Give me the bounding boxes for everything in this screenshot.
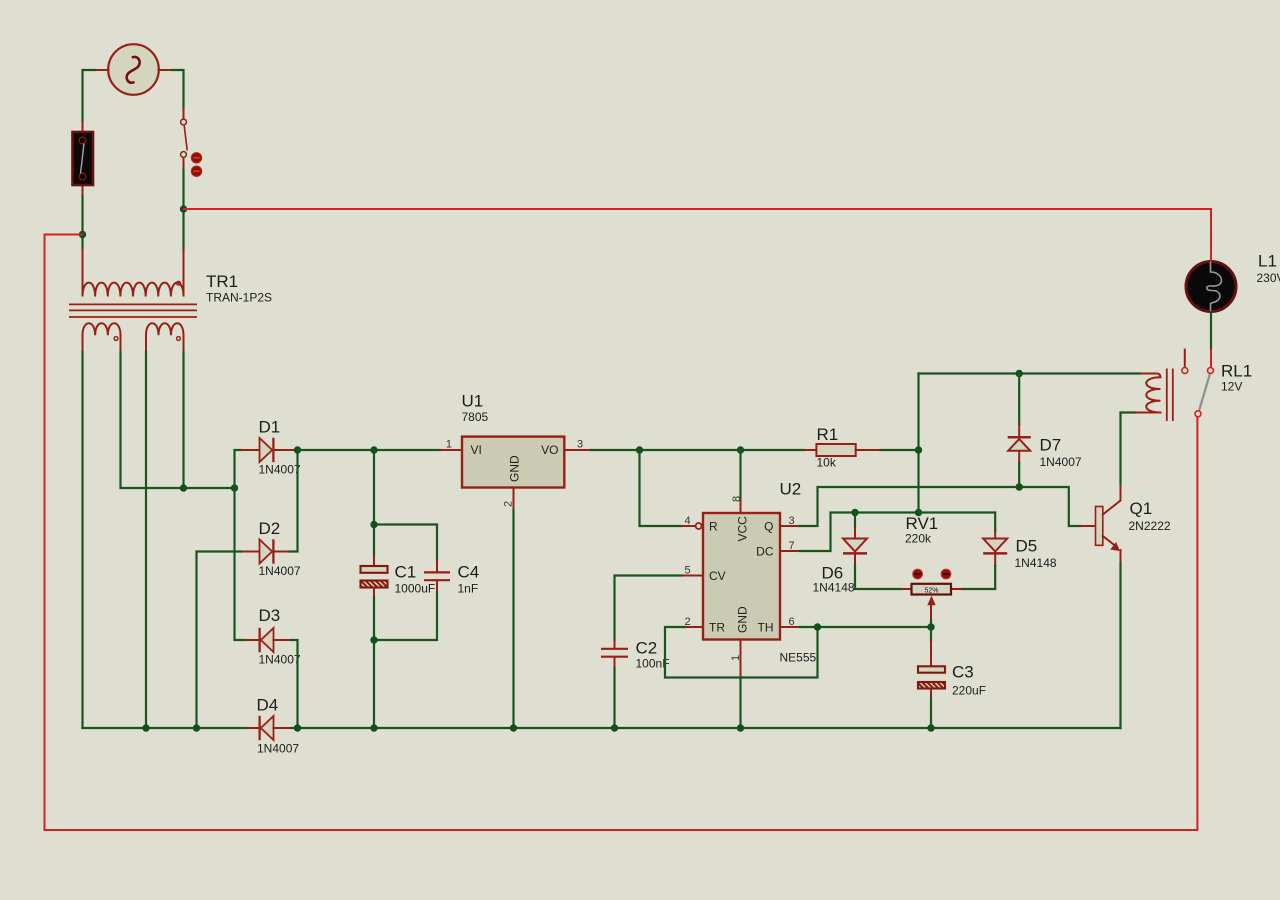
svg-text:D3: D3 — [259, 606, 281, 625]
svg-text:230V: 230V — [1257, 271, 1280, 285]
RV1 toggle dot left — [913, 569, 923, 579]
wire coil rail — [919, 372, 1141, 374]
node +5V right junction — [915, 446, 922, 453]
wire DC to RV1 top rail — [800, 513, 919, 552]
svg-text:RV1: RV1 — [906, 514, 939, 533]
diode D5 — [952, 531, 1008, 589]
transformer TR1 — [69, 249, 197, 352]
pin stub source right — [159, 69, 173, 71]
relay RL1 coil — [1135, 369, 1173, 422]
svg-text:C4: C4 — [458, 563, 480, 582]
wire source-right to switch — [172, 70, 184, 109]
svg-text:C3: C3 — [952, 663, 974, 682]
node rail C2 — [611, 724, 618, 731]
wire collector to coil — [1121, 413, 1136, 485]
wire +5V vertical to coil rail — [917, 374, 919, 513]
wire 555 pin1 to rail — [739, 678, 741, 728]
node junction secondary leads — [180, 484, 187, 491]
wire mains top red — [184, 209, 1211, 261]
svg-text:3: 3 — [789, 515, 795, 527]
svg-text:TRAN-1P2S: TRAN-1P2S — [206, 291, 272, 305]
diode D7 — [1008, 374, 1031, 488]
svg-text:TR: TR — [709, 621, 725, 635]
svg-text:GND: GND — [508, 455, 522, 482]
wire D2 cathode up to +V — [290, 450, 298, 552]
wire C1 bottom to rail — [373, 597, 375, 728]
node C1-C4 bottom junction — [370, 636, 377, 643]
svg-text:1N4148: 1N4148 — [1015, 556, 1057, 570]
svg-text:3: 3 — [577, 439, 583, 451]
svg-text:TH: TH — [758, 621, 774, 635]
svg-text:7: 7 — [789, 540, 795, 552]
wire wiper junction down to C3 — [930, 627, 932, 641]
potentiometer RV1 — [912, 584, 952, 627]
wire lamp bottom green — [1210, 312, 1212, 350]
svg-text:D7: D7 — [1040, 436, 1062, 455]
svg-text:220k: 220k — [905, 532, 932, 546]
node rail D2 anode — [193, 724, 200, 731]
capacitor C4 — [424, 560, 450, 592]
svg-text:D1: D1 — [259, 418, 281, 437]
node junction D1-D2 vertical — [231, 484, 238, 491]
node C1-C4 top junction — [370, 521, 377, 528]
regulator U1 7805 — [440, 437, 591, 510]
wire TH junction to wiper — [800, 626, 932, 628]
RV1 toggle dot right — [941, 569, 951, 579]
svg-text:1000uF: 1000uF — [395, 582, 436, 596]
diode D4 — [246, 716, 291, 740]
svg-text:7805: 7805 — [462, 410, 489, 424]
wire secondary2 right lead — [182, 352, 184, 488]
wire C1 branch from +V — [373, 450, 375, 556]
svg-text:C1: C1 — [395, 563, 417, 582]
node Q wire D7 junction — [1016, 483, 1023, 490]
wire bottom rail left segment — [83, 727, 247, 729]
capacitor C1 — [361, 556, 388, 597]
switch SW1 — [181, 109, 188, 170]
wire D2 anode left down to rail — [197, 552, 242, 729]
node +5V VCC branch — [737, 446, 744, 453]
wire source-left to fuse — [83, 70, 96, 121]
node D6 top junction — [851, 509, 858, 516]
fuse FU1 — [73, 121, 94, 196]
wire reset pin branch — [640, 450, 682, 526]
diode D3 — [246, 628, 291, 652]
diode D2 — [241, 539, 290, 563]
svg-text:R1: R1 — [817, 425, 839, 444]
svg-text:CV: CV — [709, 569, 726, 583]
wire secondary1 right lead to junction — [121, 352, 235, 488]
wire C4 bottom branch — [374, 592, 437, 640]
node rail U1 GND — [510, 724, 517, 731]
wire C4 top branch — [374, 525, 437, 561]
wire emitter to rail — [1119, 563, 1121, 728]
svg-text:GND: GND — [736, 606, 750, 633]
svg-text:5: 5 — [685, 565, 691, 577]
svg-text:1N4007: 1N4007 — [259, 564, 301, 578]
wire VCC branch — [739, 450, 741, 500]
AC source V1 — [108, 44, 159, 95]
node B junction switch column — [180, 205, 187, 212]
svg-text:L1: L1 — [1258, 252, 1277, 271]
svg-text:220uF: 220uF — [952, 684, 986, 698]
diode D1 — [241, 438, 297, 462]
svg-text:2N2222: 2N2222 — [1129, 519, 1171, 533]
svg-text:1: 1 — [446, 439, 452, 451]
svg-text:TR1: TR1 — [206, 272, 238, 291]
svg-text:C2: C2 — [636, 639, 658, 658]
capacitor C3 — [918, 641, 945, 728]
svg-text:R: R — [709, 520, 718, 534]
svg-text:U1: U1 — [462, 392, 484, 411]
svg-text:1N4007: 1N4007 — [259, 653, 301, 667]
switch SW1 toggle dot upper — [191, 153, 201, 163]
timer U2 NE555 — [682, 496, 800, 678]
node +5V R pin branch — [636, 446, 643, 453]
svg-text:1N4007: 1N4007 — [1040, 455, 1082, 469]
lamp L1 — [1186, 262, 1236, 312]
wire bottom rail right segment — [291, 727, 1121, 729]
wire secondary2 left lead — [145, 352, 147, 728]
relay RL1 switch — [1182, 350, 1214, 417]
node RV1 rail vertical junction — [915, 509, 922, 516]
node rail S2 left lead — [142, 724, 149, 731]
svg-text:1: 1 — [730, 655, 742, 661]
wire switch to primary right — [182, 170, 184, 249]
wire mains return loop red — [45, 235, 1198, 831]
svg-text:8: 8 — [731, 496, 743, 502]
svg-text:4: 4 — [685, 515, 691, 527]
svg-text:NE555: NE555 — [780, 651, 817, 665]
svg-text:2: 2 — [503, 501, 515, 507]
node C1 top on +V rail — [370, 446, 377, 453]
svg-text:6: 6 — [789, 616, 795, 628]
svg-text:RL1: RL1 — [1221, 362, 1252, 381]
svg-text:U2: U2 — [780, 480, 802, 499]
svg-text:D2: D2 — [259, 519, 281, 538]
svg-text:52%: 52% — [924, 588, 938, 595]
node rail C3 — [927, 724, 934, 731]
wire TR loop — [665, 627, 818, 678]
diode D6 — [843, 513, 912, 590]
svg-text:12V: 12V — [1221, 380, 1242, 394]
wire +V rail to U1 — [298, 449, 441, 451]
wire D3 anode down to rail — [291, 640, 298, 728]
svg-text:1N4148: 1N4148 — [813, 581, 855, 595]
wire fuse to primary left — [81, 196, 83, 249]
wire Q output to transistor base — [800, 487, 1081, 526]
node rail 555 GND — [737, 724, 744, 731]
wire D1 anode vertical — [235, 450, 247, 640]
pin stub source left — [95, 69, 109, 71]
svg-text:Q: Q — [764, 520, 773, 534]
svg-text:10k: 10k — [817, 456, 837, 470]
wire RV1 rail to D5 — [919, 513, 996, 532]
node A junction fuse column — [79, 231, 86, 238]
wire C2 bottom to rail — [613, 668, 615, 728]
wire U1 GND to rail — [512, 510, 514, 728]
capacitor C2 — [601, 640, 628, 668]
svg-text:D4: D4 — [257, 696, 279, 715]
resistor R1 — [804, 444, 881, 456]
svg-text:1N4007: 1N4007 — [259, 463, 301, 477]
wire secondary1 left lead — [81, 352, 83, 728]
svg-text:1nF: 1nF — [458, 582, 479, 596]
svg-text:VCC: VCC — [736, 516, 750, 542]
transistor Q1 — [1080, 484, 1121, 563]
svg-text:VI: VI — [471, 443, 482, 457]
svg-text:1N4007: 1N4007 — [257, 742, 299, 756]
node rail C1 — [370, 724, 377, 731]
svg-text:DC: DC — [756, 545, 774, 559]
wire CV to C2 — [615, 576, 682, 641]
wire R1 to vertical — [881, 449, 919, 451]
wire +5V rail from U1 VO — [591, 449, 805, 451]
node coil rail D7 — [1016, 370, 1023, 377]
node rail D4 anode — [294, 724, 301, 731]
switch SW1 toggle dot lower — [191, 166, 201, 176]
wire lamp to relay pole stub — [1210, 350, 1212, 367]
svg-text:Q1: Q1 — [1130, 499, 1153, 518]
node wiper junction — [927, 623, 934, 630]
svg-text:VO: VO — [541, 443, 558, 457]
svg-text:D5: D5 — [1016, 537, 1038, 556]
node TH junction — [814, 623, 821, 630]
node +V rail D1 cathode — [294, 446, 301, 453]
